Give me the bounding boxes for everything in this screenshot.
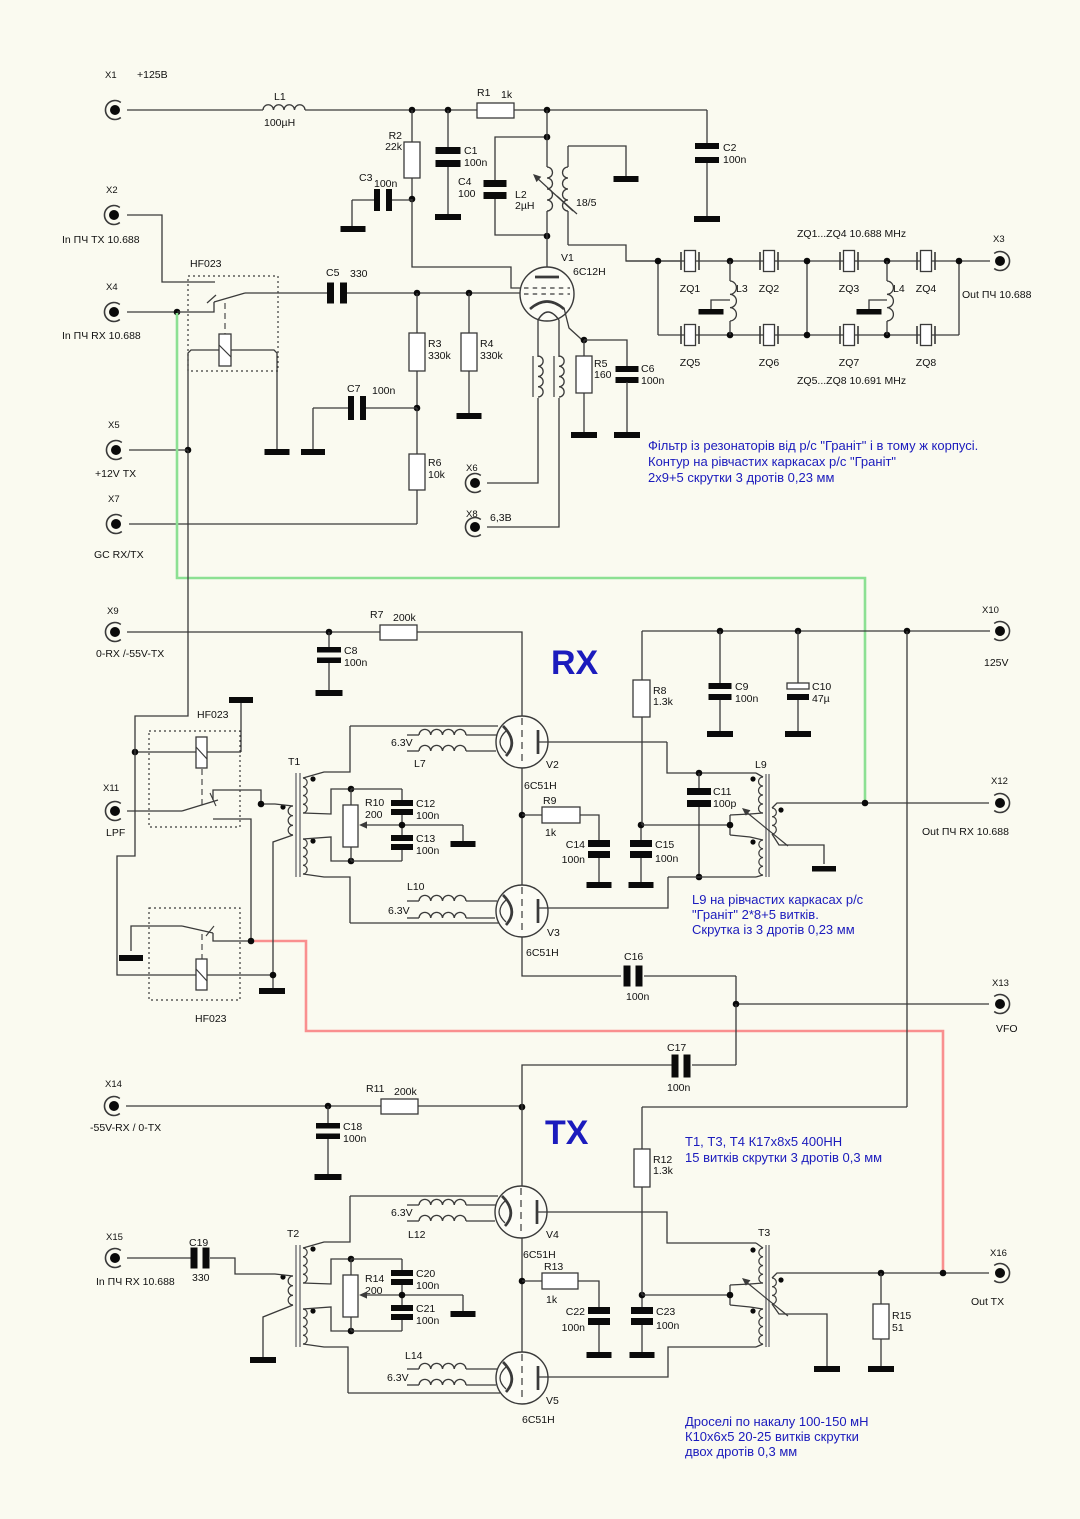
wire V2 anode — [538, 741, 667, 743]
svg-text:Out ПЧ RX 10.688: Out ПЧ RX 10.688 — [922, 826, 1009, 838]
connector X13 — [992, 978, 1018, 1035]
svg-text:L9 на рівчастих каркасах р/с: L9 на рівчастих каркасах р/с — [692, 892, 864, 907]
wire T1 primary bottom lead — [273, 835, 293, 988]
svg-text:100n: 100n — [343, 1133, 367, 1145]
node R3-C7 junction — [414, 405, 421, 412]
crystal ZQ3 — [839, 251, 860, 296]
wire R14 bottom rail — [351, 1330, 402, 1332]
wire T3 secondary top to X16 — [772, 1273, 989, 1278]
svg-text:100: 100 — [458, 188, 476, 200]
svg-text:Контур на рівчастих каркасах р: Контур на рівчастих каркасах р/с "Граніт… — [648, 454, 896, 469]
relay1 switch arm — [207, 293, 245, 303]
ground C9 — [707, 731, 733, 737]
wire R10 bottom rail — [351, 860, 402, 862]
wire X11 to relay2 arm — [127, 810, 182, 812]
ground mid tap — [451, 841, 476, 847]
svg-text:6С51Н: 6С51Н — [526, 947, 559, 959]
wire filter row2 — [658, 334, 959, 336]
wire L9 bottom rail — [668, 876, 756, 878]
connector X8 — [465, 509, 511, 537]
svg-text:C9: C9 — [735, 681, 749, 693]
relay HF023 low dotted box — [149, 908, 240, 1025]
wire TX grid vertical — [522, 1065, 672, 1352]
wire relay1 coil left to X5 line — [188, 350, 219, 450]
svg-text:100n: 100n — [723, 154, 747, 166]
capacitor C2 — [695, 110, 747, 216]
svg-text:200: 200 — [365, 809, 383, 821]
tube V1 — [520, 252, 606, 321]
node R15 junction — [878, 1270, 885, 1277]
svg-text:X7: X7 — [108, 494, 120, 505]
wire relay1 coil right to ground — [231, 350, 277, 449]
svg-text:двох дротів 0,3 мм: двох дротів 0,3 мм — [685, 1444, 797, 1459]
ground C14 — [587, 882, 612, 888]
wire C12-C13 mid tap — [359, 815, 463, 841]
wire 18/5 bottom to filter — [568, 245, 680, 261]
svg-text:X14: X14 — [105, 1079, 122, 1090]
resistor R7 — [370, 609, 417, 640]
L9 primary upper winding — [750, 773, 763, 813]
node T3 center tap junction — [727, 1292, 734, 1299]
svg-text:L12: L12 — [408, 1229, 426, 1241]
svg-text:C11: C11 — [713, 786, 732, 798]
svg-text:X15: X15 — [106, 1232, 123, 1243]
resistor R6 — [409, 408, 446, 524]
svg-text:330: 330 — [350, 268, 368, 280]
L9 secondary winding — [772, 807, 784, 834]
svg-text:+12V ТХ: +12V ТХ — [95, 468, 136, 480]
wire V2 grid line — [521, 768, 523, 886]
svg-text:R9: R9 — [543, 795, 557, 807]
wire V5 cathode rail — [348, 1392, 500, 1394]
capacitor C4 — [458, 137, 547, 235]
crystal ZQ7 — [839, 325, 860, 370]
svg-text:51: 51 — [892, 1322, 904, 1334]
capacitor C13 — [391, 833, 440, 861]
wire R7 to grid line — [417, 632, 522, 716]
wire R11 to grid line — [418, 1105, 522, 1107]
capacitor C18 — [316, 1106, 367, 1174]
wire V4 cathode rail — [350, 1195, 498, 1197]
svg-text:Фільтр із резонаторів від р/с: Фільтр із резонаторів від р/с "Граніт" і… — [648, 438, 978, 453]
node C11 bottom junction — [696, 874, 703, 881]
svg-text:100n: 100n — [655, 853, 679, 865]
svg-text:100n: 100n — [667, 1082, 691, 1094]
svg-text:160: 160 — [594, 369, 612, 381]
svg-text:C22: C22 — [566, 1306, 585, 1318]
svg-text:6С12Н: 6С12Н — [573, 266, 606, 278]
tube V5 — [496, 1352, 559, 1426]
svg-text:C17: C17 — [667, 1042, 686, 1054]
svg-text:ZQ2: ZQ2 — [759, 283, 780, 295]
wire relay1 pivot jog — [177, 302, 214, 312]
wire anode vertical — [546, 110, 548, 277]
T3 secondary winding — [772, 1277, 784, 1304]
ground R4 — [457, 413, 482, 419]
wire L1 to R1 — [305, 109, 477, 111]
node X5 junction — [185, 447, 192, 454]
svg-text:L1: L1 — [274, 91, 286, 103]
tube V3 — [496, 885, 560, 959]
svg-text:L9: L9 — [755, 759, 767, 771]
wire T1 sec lower bottom lead — [303, 874, 350, 923]
L9 coupling arrow — [742, 808, 788, 846]
wire relay2 NO contact to T1 — [213, 790, 261, 804]
inductor L7 lower — [407, 745, 496, 770]
svg-text:Out TX: Out TX — [971, 1296, 1004, 1308]
wire X15 to C19 — [127, 1257, 192, 1259]
ground C10 — [785, 731, 811, 737]
resistor R10 potentiometer — [343, 789, 384, 861]
wire T1 sec upper top lead — [303, 726, 350, 778]
T3 primary lower winding — [750, 1308, 763, 1347]
svg-text:X11: X11 — [103, 783, 119, 794]
svg-text:HF023: HF023 — [190, 258, 222, 270]
crystal ZQ8 — [916, 325, 937, 370]
relay2 switch arm — [182, 793, 218, 811]
wire +12V line — [117, 450, 196, 975]
svg-text:C21: C21 — [416, 1303, 435, 1315]
wire bus to TX vertical — [906, 631, 908, 1107]
note filter description — [648, 438, 978, 485]
wire R1 to C2 — [514, 109, 707, 111]
wire choke right to X8 — [487, 398, 559, 527]
svg-text:X12: X12 — [991, 776, 1008, 787]
inductor L7 upper — [391, 729, 497, 749]
ground relay3 common — [119, 955, 143, 961]
wire V5 anode — [538, 1347, 756, 1377]
svg-text:100n: 100n — [416, 1315, 440, 1327]
node X4 junction — [174, 309, 181, 316]
ground R5 — [571, 432, 597, 438]
connector X5 — [95, 420, 136, 480]
svg-text:ZQ5: ZQ5 — [680, 357, 701, 369]
wire V2 cathode rail — [350, 725, 498, 727]
svg-text:200k: 200k — [393, 612, 417, 624]
ground C8 — [316, 690, 343, 696]
label filter row2 frequency — [797, 375, 906, 387]
relay1 coil — [219, 303, 231, 366]
svg-text:ZQ4: ZQ4 — [916, 283, 937, 295]
wire T3 secondary bottom to ground — [772, 1304, 827, 1366]
capacitor C7 — [313, 383, 417, 449]
node R14 top junction — [348, 1256, 355, 1263]
node R11 grid junction — [519, 1104, 526, 1111]
capacitor C5 — [326, 267, 368, 304]
node bus C9 junction — [717, 628, 724, 635]
wire L3 tap to ground — [711, 300, 730, 309]
ground relay1 coil — [265, 449, 290, 455]
wire T1 primary top lead — [261, 804, 293, 806]
svg-text:X8: X8 — [466, 509, 478, 520]
svg-text:ZQ6: ZQ6 — [759, 357, 780, 369]
transformer L9 core — [755, 759, 769, 877]
T3 primary upper winding — [750, 1243, 763, 1283]
wire X13 junction to C17 — [735, 1004, 737, 1065]
capacitor C19 — [189, 1237, 210, 1284]
svg-text:100n: 100n — [374, 178, 398, 190]
svg-text:C16: C16 — [624, 951, 643, 963]
node R10 bottom junction — [348, 858, 355, 865]
svg-text:C4: C4 — [458, 176, 472, 188]
wire T2 primary bottom lead — [263, 1305, 293, 1357]
ground C3 — [341, 226, 366, 232]
wire relay3 common to ground — [131, 926, 182, 951]
svg-text:L10: L10 — [407, 881, 425, 893]
ground L4 — [857, 309, 882, 315]
wire V3 grid to C16 — [522, 937, 621, 976]
node +125V rail junction R2 — [409, 107, 416, 114]
svg-text:ZQ1...ZQ4 10.688 MHz: ZQ1...ZQ4 10.688 MHz — [797, 228, 906, 240]
inductor L12 upper — [391, 1199, 496, 1219]
connector X16 — [971, 1248, 1010, 1308]
svg-text:X3: X3 — [993, 234, 1005, 245]
node grid R13 junction — [519, 1278, 526, 1285]
svg-text:R4: R4 — [480, 338, 494, 350]
svg-text:ZQ8: ZQ8 — [916, 357, 937, 369]
svg-text:L14: L14 — [405, 1350, 423, 1362]
inductor L3 — [730, 261, 748, 335]
wire X14 to R11 — [126, 1105, 381, 1107]
node tank top — [544, 134, 551, 141]
node grid R4 junction — [466, 290, 473, 297]
svg-text:X4: X4 — [106, 282, 118, 293]
node tank bottom — [544, 233, 551, 240]
svg-text:C5: C5 — [326, 267, 340, 279]
tube V2 — [496, 716, 559, 792]
wire filter row1 — [626, 260, 990, 262]
relay3 coil — [196, 934, 207, 990]
wire T2 sec lower top lead — [303, 1307, 351, 1331]
inductor L12 lower — [407, 1215, 495, 1241]
T3 coupling arrow — [742, 1278, 788, 1316]
svg-text:X1: X1 — [105, 70, 117, 81]
ground C23 — [630, 1352, 655, 1358]
capacitor C12 — [391, 789, 440, 822]
svg-text:100n: 100n — [735, 693, 759, 705]
wire X1 to L1 — [127, 109, 263, 111]
svg-text:X10: X10 — [982, 605, 999, 616]
ground C18 — [315, 1174, 342, 1180]
svg-text:VFO: VFO — [996, 1023, 1018, 1035]
wire relay2 coil left — [135, 751, 196, 753]
resistor R9 — [522, 795, 580, 839]
svg-text:V3: V3 — [547, 927, 560, 939]
connector X12 — [922, 776, 1010, 838]
svg-text:125V: 125V — [984, 657, 1009, 669]
crystal ZQ6 — [759, 325, 780, 370]
svg-text:In ПЧ ТХ 10.688: In ПЧ ТХ 10.688 — [62, 234, 140, 246]
svg-text:C8: C8 — [344, 645, 358, 657]
inductor L4 — [887, 261, 905, 335]
ground C1 — [435, 214, 461, 220]
inductor L14 lower — [387, 1372, 496, 1385]
svg-text:R13: R13 — [544, 1261, 563, 1273]
node X13 junction — [733, 1001, 740, 1008]
connector X3 — [962, 234, 1032, 301]
wire L9 secondary top to X12 — [772, 803, 989, 808]
wire C17 to X13 vertical — [692, 1064, 736, 1066]
wire T1 sec lower top lead — [303, 837, 351, 861]
svg-text:L7: L7 — [414, 758, 426, 770]
node mid tap junction — [399, 822, 406, 829]
T1 primary winding — [280, 804, 293, 835]
connector X6 — [465, 463, 480, 493]
L9 primary lower winding — [750, 839, 763, 877]
ground C7 — [301, 449, 325, 455]
wire T2 sec lower bottom lead — [303, 1344, 348, 1393]
node C18 junction — [325, 1103, 332, 1110]
inductor L10 upper — [407, 881, 497, 901]
svg-text:+125В: +125В — [137, 69, 168, 81]
svg-text:1.3k: 1.3k — [653, 696, 674, 708]
connector X14 — [90, 1079, 161, 1134]
connector X10 — [982, 605, 1010, 669]
connector X9 — [96, 606, 164, 660]
node green X12 junction — [862, 800, 869, 807]
svg-text:100n: 100n — [372, 385, 396, 397]
svg-text:R7: R7 — [370, 609, 384, 621]
capacitor C10 electrolytic — [787, 631, 831, 731]
connector X7 — [94, 494, 144, 561]
svg-text:L4: L4 — [893, 283, 905, 295]
capacitor C6 — [584, 340, 665, 432]
wire V4 anode — [537, 1212, 756, 1243]
crystal ZQ5 — [680, 325, 701, 370]
ground C6 — [614, 432, 640, 438]
svg-text:T3: T3 — [758, 1227, 770, 1239]
svg-text:6С51Н: 6С51Н — [524, 780, 557, 792]
svg-text:C12: C12 — [416, 798, 435, 810]
svg-text:0-RX /-55V-TX: 0-RX /-55V-TX — [96, 648, 164, 660]
svg-text:6С51Н: 6С51Н — [523, 1249, 556, 1261]
node R14 bottom junction — [348, 1328, 355, 1335]
svg-text:R6: R6 — [428, 457, 442, 469]
wire relay2 NC contact — [213, 819, 251, 941]
svg-text:100n: 100n — [416, 810, 440, 822]
note T transformers description — [685, 1134, 882, 1165]
wire L4 tap to ground — [869, 300, 887, 309]
wire TX supply bus — [642, 1106, 907, 1108]
svg-text:R11: R11 — [366, 1083, 385, 1095]
svg-text:X9: X9 — [107, 606, 119, 617]
svg-text:22k: 22k — [385, 141, 403, 153]
wire relay3 contact to red node — [213, 933, 251, 941]
svg-text:C18: C18 — [343, 1121, 362, 1133]
node C15 junction — [638, 822, 645, 829]
wire R9 to C14 — [580, 815, 599, 840]
capacitor C8 — [317, 632, 368, 690]
node +125V rail junction C1 — [445, 107, 452, 114]
svg-text:100n: 100n — [416, 845, 440, 857]
svg-text:In ПЧ RX 10.688: In ПЧ RX 10.688 — [96, 1276, 175, 1288]
capacitor C14 — [562, 839, 610, 882]
wire T1 sec upper bottom lead — [303, 789, 351, 814]
wire L9 secondary bottom to ground — [772, 834, 824, 864]
wire C20-C21 mid tap — [359, 1285, 463, 1311]
node R10 top junction — [348, 786, 355, 793]
wire X9 to R7 — [127, 631, 380, 633]
node L9 center tap junction — [727, 822, 734, 829]
svg-text:330: 330 — [192, 1272, 210, 1284]
wire R14 top rail — [351, 1258, 402, 1260]
wire X7 to R6 — [129, 523, 417, 525]
svg-text:C13: C13 — [416, 833, 435, 845]
svg-text:In ПЧ RX 10.688: In ПЧ RX 10.688 — [62, 330, 141, 342]
label RX — [551, 644, 599, 682]
svg-text:Т1, Т3, Т4 К17х8х5 400НН: Т1, Т3, Т4 К17х8х5 400НН — [685, 1134, 842, 1149]
ground C22 — [587, 1352, 612, 1358]
ground L3 — [699, 309, 724, 315]
svg-text:6.3V: 6.3V — [387, 1372, 409, 1384]
node T1 ground junction — [270, 972, 277, 979]
label TX — [545, 1114, 589, 1152]
T2 primary winding — [280, 1274, 293, 1305]
wire V1 heater pins — [538, 320, 559, 357]
capacitor C23 — [631, 1295, 680, 1352]
ground T3 secondary — [814, 1366, 840, 1372]
svg-text:C6: C6 — [641, 363, 655, 375]
transformer T2 core — [287, 1228, 300, 1347]
svg-text:6.3V: 6.3V — [391, 737, 413, 749]
transformer T3 core — [758, 1227, 770, 1347]
inductor L2 variable — [515, 167, 573, 212]
T1 secondary upper winding — [303, 776, 316, 813]
ground C2 — [694, 216, 720, 222]
wire 125V bus — [642, 630, 990, 632]
svg-text:100µН: 100µН — [264, 117, 295, 129]
svg-text:"Граніт" 2*8+5 витків.: "Граніт" 2*8+5 витків. — [692, 907, 819, 922]
svg-text:1.3k: 1.3k — [653, 1165, 674, 1177]
svg-text:C20: C20 — [416, 1268, 435, 1280]
capacitor C21 — [391, 1303, 440, 1331]
node filter junctions — [655, 258, 963, 339]
node bus TX feed junction — [904, 628, 911, 635]
tube V4 — [495, 1186, 559, 1261]
svg-text:10k: 10k — [428, 469, 446, 481]
svg-text:100n: 100n — [562, 854, 586, 866]
svg-text:ZQ1: ZQ1 — [680, 283, 701, 295]
wire C16 to X13 — [736, 976, 989, 1004]
capacitor C17 — [667, 1042, 691, 1094]
ground 18/5 top — [614, 176, 639, 182]
capacitor C11 — [687, 773, 737, 877]
resistor R12 — [634, 1107, 674, 1295]
wire V2 anode to L9 top rail — [667, 742, 756, 773]
wire filter mid vertical — [806, 261, 808, 335]
wire X5 to junction — [129, 449, 188, 451]
node V1 cathode junction — [581, 337, 588, 344]
wire V3 anode — [538, 877, 668, 908]
node bus C10 junction — [795, 628, 802, 635]
wire V3 cathode rail — [350, 922, 499, 924]
svg-text:100p: 100p — [713, 798, 737, 810]
inductor L1 — [263, 91, 305, 129]
ground L9 secondary — [812, 866, 836, 872]
transformer T1 core — [288, 756, 300, 877]
svg-text:C19: C19 — [189, 1237, 208, 1249]
svg-text:LPF: LPF — [106, 827, 125, 839]
wire R2 to V1 screen grid — [412, 199, 521, 288]
capacitor C1 — [436, 110, 488, 214]
node relay2 coil junction — [132, 749, 139, 756]
connector X15 — [96, 1232, 175, 1288]
svg-text:X16: X16 — [990, 1248, 1007, 1259]
wire L9 center tap — [642, 813, 763, 840]
svg-text:R14: R14 — [365, 1273, 384, 1285]
inductor L10 lower — [388, 905, 495, 918]
svg-text:100n: 100n — [344, 657, 368, 669]
